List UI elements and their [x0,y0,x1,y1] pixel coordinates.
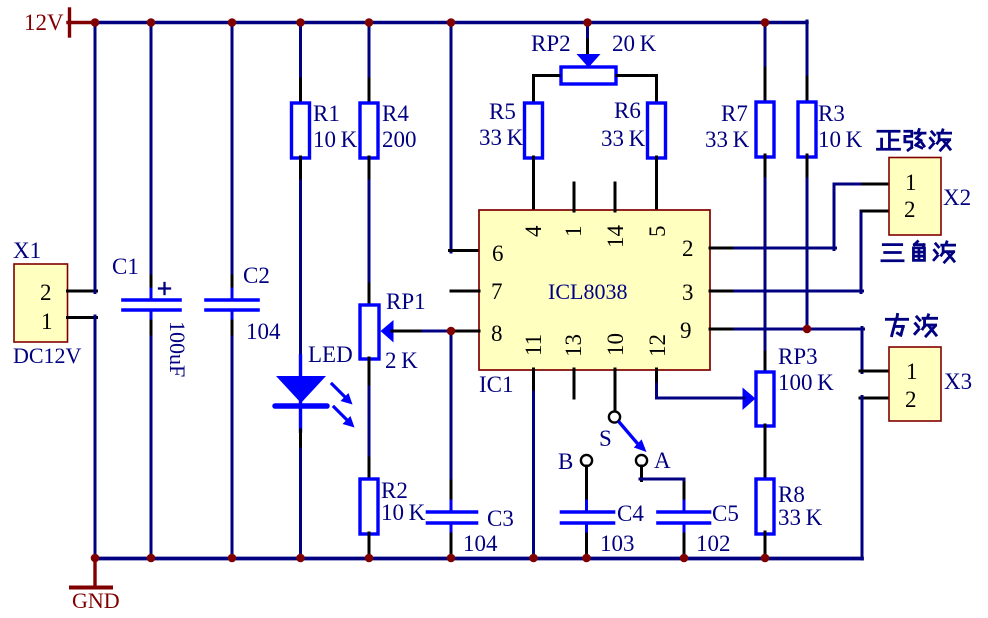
wire C1 top [150,21,153,290]
svg-text:102: 102 [696,531,731,556]
svg-text:5: 5 [645,226,670,238]
wire IC pin 2 to X2 pin 1 [710,184,889,250]
pin 10 [603,333,628,356]
wire C3 to GND rail [450,534,453,557]
capacitor C4 [562,501,614,534]
svg-text:33 K: 33 K [601,126,646,151]
wire IC pin 10 to switch [614,369,617,411]
value R1 10&#8201;K [313,127,358,152]
label 12V [24,10,64,35]
label A [654,448,671,473]
wire C2 bottom [231,321,234,559]
label IC1 [479,372,514,397]
wire IC pin 9 to X3 pin 1 [710,328,889,373]
svg-text:R4: R4 [382,101,409,126]
junction dots GND rail [91,554,770,563]
svg-text:12V: 12V [24,10,64,35]
svg-text:S: S [599,426,612,451]
svg-text:C3: C3 [487,506,514,531]
svg-text:A: A [654,448,671,473]
pin 11 [521,334,546,356]
svg-text:10 K: 10 K [381,500,426,525]
value RP1 2K [385,348,418,373]
resistor R7 [756,102,774,157]
wire 12V to R1 [299,21,302,104]
resistor R2 [360,479,378,534]
svg-text:1: 1 [561,226,586,238]
svg-text:3: 3 [682,280,694,305]
resistor R8 [756,479,774,534]
pin 6 [492,241,504,266]
junction dots 12V rail [91,18,770,27]
potentiometer RP3 [743,372,775,426]
pin 9 [680,318,692,343]
wire R4 to RP1 [368,157,371,306]
pin 12 [645,334,670,357]
label C2 [243,263,270,288]
pin 2 [682,236,694,261]
svg-text:13: 13 [561,334,586,357]
label R3 [818,101,845,126]
resistor R5 [525,103,543,158]
wire R5 to IC pin 4 [532,157,535,211]
wire R6 to IC pin 5 [655,157,658,211]
svg-text:R3: R3 [818,101,845,126]
value R2 10&#8201;K [381,500,426,525]
label R6 [614,98,641,123]
svg-text:1: 1 [906,359,918,384]
wire X3 pin 2 to GND rail [860,397,889,560]
svg-text:C5: C5 [712,501,739,526]
wire C5 to GND rail [683,534,686,557]
pin 5 [645,226,670,238]
svg-text:12: 12 [645,334,670,357]
wire RP1 wiper to pin 8 [392,330,452,333]
svg-text:4: 4 [521,225,546,237]
svg-text:1: 1 [905,170,917,195]
label RP3 [778,344,818,369]
wire contact B to C4 [585,466,588,502]
svg-text:200: 200 [382,127,417,152]
svg-text:103: 103 [600,531,635,556]
svg-text:R8: R8 [778,482,805,507]
connector X3 [889,347,941,421]
pin 1 X2 [905,170,917,195]
connector X1 [14,264,68,342]
junction pin 8 [447,327,456,336]
svg-text:33 K: 33 K [778,505,823,530]
wire RP2 left to R5 [534,76,560,105]
wire RP3 to R8 [764,425,767,480]
wire 12V rail corner to R3 [806,21,809,103]
LED D1 [275,356,327,431]
wire C4 to GND rail [585,534,588,557]
capacitor C3 [428,501,477,534]
wire 12V to R4 [368,21,371,104]
wire C2 top [231,21,234,290]
LED light arrows [332,384,355,428]
potentiometer RP2 [561,54,616,84]
value C2 104 [246,319,281,344]
svg-text:GND: GND [72,588,120,613]
svg-text:10 K: 10 K [313,127,358,152]
pin 13 stub [573,369,576,398]
label RP2 [531,31,571,56]
pin 8 stub [450,330,479,333]
pin 1 stub [573,183,576,211]
wire R8 to GND rail [764,532,767,557]
wire 12V to IC pin 6 [450,21,480,252]
label X2 [943,185,971,210]
label X3 [944,369,972,394]
svg-text:C4: C4 [617,501,644,526]
pin 1 [561,226,586,238]
wire R3 to pin 9 node [806,155,809,330]
wire 12V to RP2 wiper [586,21,589,55]
label GND [72,588,120,613]
svg-text:X1: X1 [13,238,41,263]
svg-text:2 K: 2 K [385,348,418,373]
net label triangle wave (san jiao bo) [882,241,955,262]
wire pin 8 to C3 [450,330,453,502]
wire pin 12 to RP3 wiper [657,369,745,398]
label R7 [721,101,748,126]
pin 2 X3 [905,387,917,412]
switch contact A [636,455,647,466]
value RP2 20K [612,31,657,56]
label R4 [382,101,409,126]
wire RP1 to R2 [368,358,371,480]
junction pin 9 R3 [803,325,812,334]
capacitor C1 [123,289,180,321]
svg-text:R1: R1 [313,101,340,126]
pin 2 X1 [40,280,52,305]
resistor R4 [360,103,378,158]
label DC12V [13,343,82,368]
pin 7 [491,279,503,304]
svg-text:DC12V: DC12V [13,343,82,368]
svg-text:20 K: 20 K [612,31,657,56]
wire IC pin 3 to X2 pin 2 [710,211,889,293]
svg-text:RP1: RP1 [386,289,426,314]
svg-text:2: 2 [40,280,52,305]
label ICL8038 [548,279,627,304]
pin 3 [682,280,694,305]
label R1 [313,101,340,126]
wire IC pin 11 to GND rail [532,369,535,559]
svg-text:B: B [558,449,573,474]
pin 14 [603,225,628,249]
value R8 33&#8201;K [778,505,823,530]
label R2 [381,478,408,503]
svg-text:6: 6 [492,241,504,266]
value C3 104 [463,531,498,556]
svg-text:33 K: 33 K [479,125,524,150]
resistor R3 [798,102,816,157]
pin 4 [521,225,546,237]
pin 1 X1 [41,309,53,334]
label R5 [489,99,516,124]
net label square wave (fang bo) [886,314,936,336]
value R4 200 [382,127,417,152]
svg-text:11: 11 [521,334,546,356]
pin 8 [491,321,503,346]
wire RP2 right to R6 [617,76,657,105]
svg-text:2: 2 [682,236,694,261]
value C4 103 [600,531,635,556]
connector X2 [889,158,941,236]
wire R2 to GND rail [368,533,371,557]
wire GND bottom rail [95,557,862,561]
svg-text:X2: X2 [943,185,971,210]
svg-text:1: 1 [41,309,53,334]
wire X1 pin1 to GND rail [68,316,97,559]
label B [558,449,573,474]
svg-text:LED: LED [308,342,353,367]
capacitor C5 [658,501,710,534]
wire LED to GND rail [299,430,302,559]
wire contact A to C5 [640,466,684,502]
svg-text:2: 2 [905,387,917,412]
label R8 [778,482,805,507]
switch S common contact [609,411,620,422]
potentiometer RP1 [360,305,394,359]
wire R1 to LED [299,157,302,358]
resistor R1 [292,103,310,158]
label C4 [617,501,644,526]
value RP3 100K [778,370,834,395]
op-amp IC1 ICL8038 body [479,210,710,370]
svg-text:R7: R7 [721,101,748,126]
pin 7 stub [451,290,479,293]
svg-text:8: 8 [491,321,503,346]
wire C1 bottom [150,321,153,559]
wire 12V top rail [95,21,807,24]
switch contact B [581,455,592,466]
value C1 100uF [165,321,190,377]
svg-text:33 K: 33 K [705,127,750,152]
value R5 33&#8201;K [479,125,524,150]
wire R7 to RP3 [764,155,767,373]
svg-text:R5: R5 [489,99,516,124]
pin 1 X3 [906,359,918,384]
svg-text:100 K: 100 K [778,370,834,395]
svg-text:9: 9 [680,318,692,343]
pin 2 X2 [904,197,916,222]
svg-text:14: 14 [603,225,628,249]
pin 13 [561,334,586,357]
svg-text:C1: C1 [112,254,139,279]
svg-text:X3: X3 [944,369,972,394]
label S [599,426,612,451]
value R3 10&#8201;K [818,127,863,152]
label LED [308,342,353,367]
svg-text:104: 104 [246,319,281,344]
label X1 [13,238,41,263]
resistor R6 [648,103,666,158]
capacitor C2 [206,289,258,321]
svg-text:7: 7 [491,279,503,304]
plus sign C1 [159,283,170,294]
label C5 [712,501,739,526]
svg-text:2: 2 [904,197,916,222]
label C1 [112,254,139,279]
net label sine wave (zheng xian bo) [877,129,950,150]
value R6 33&#8201;K [601,126,646,151]
power symbol 12V [68,9,96,36]
svg-text:ICL8038: ICL8038 [548,279,627,304]
wire X1 pin2 to 12V rail [68,21,97,293]
pin 14 stub [614,183,617,211]
switch S lever [620,423,647,453]
svg-text:R6: R6 [614,98,641,123]
svg-text:C2: C2 [243,263,270,288]
svg-text:10: 10 [603,333,628,356]
wire 12V to R7 [764,21,767,104]
label RP1 [386,289,426,314]
value C5 102 [696,531,731,556]
label C3 [487,506,514,531]
value R7 33&#8201;K [705,127,750,152]
ground symbol GND [71,558,111,588]
svg-text:RP3: RP3 [778,344,818,369]
svg-text:100uF: 100uF [165,321,190,377]
svg-text:10 K: 10 K [818,127,863,152]
svg-text:104: 104 [463,531,498,556]
svg-text:IC1: IC1 [479,372,514,397]
svg-text:RP2: RP2 [531,31,571,56]
